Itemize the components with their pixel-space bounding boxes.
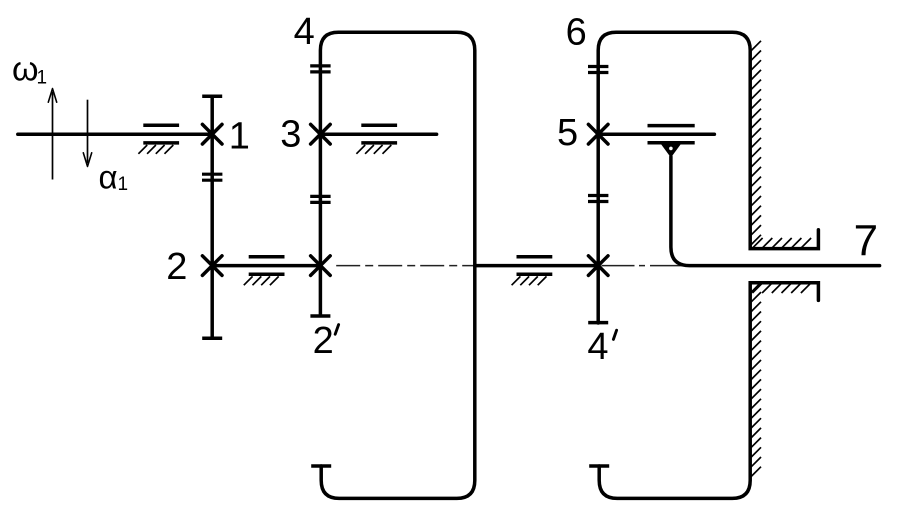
svg-text:7: 7 [854, 216, 878, 265]
coupling gear 6 to carrier 2 shaft [588, 67, 608, 73]
coupling below gear 5 [588, 196, 608, 202]
centerline between 4' and link [602, 265, 687, 267]
label 2 [166, 246, 187, 288]
shaft carrier1 to gear 4' [475, 264, 598, 268]
wall hatching upper (fixed frame) [751, 41, 761, 245]
gear mesh 5 (gear 5) [588, 124, 608, 144]
label 1 [229, 116, 250, 158]
label 6 [566, 11, 587, 53]
shaft 1-2 vertical with end caps [202, 96, 222, 338]
svg-text:ω: ω [12, 51, 39, 89]
bearing on shaft 2-2' [244, 257, 285, 286]
label 5 [557, 112, 578, 154]
label 7 [854, 216, 878, 265]
svg-text:2: 2 [166, 246, 187, 288]
svg-text:1: 1 [229, 116, 250, 158]
shaft of gear 5 horizontal [598, 132, 714, 136]
bearing on input shaft [138, 125, 179, 154]
carrier frame 2 lower outline with wall flange lower [599, 283, 818, 499]
wall hatching lower (fixed frame) [751, 282, 761, 477]
svg-text:4: 4 [587, 326, 608, 368]
gear mesh 1 (gear 1) [202, 124, 222, 144]
link from gear-5 support to output shaft 7 [671, 157, 880, 266]
arrow down (alpha_1 direction) [83, 100, 91, 167]
input shaft (shaft of gear 1) [18, 132, 212, 136]
svg-text:1: 1 [118, 174, 129, 195]
svg-text:1: 1 [37, 67, 48, 88]
label 4' [587, 326, 616, 368]
label omega_1 (input angular velocity) [12, 51, 47, 89]
shaft of gear 3 horizontal [320, 132, 436, 136]
svg-text:α: α [99, 159, 118, 196]
coupling on shaft 1-2 [202, 174, 222, 180]
label 4 [294, 11, 315, 53]
label 2' [313, 320, 339, 362]
coupling gear 4 to carrier 1 shaft [310, 66, 330, 72]
lower flange hatching [752, 283, 811, 293]
label alpha_1 (angular acceleration) [99, 159, 129, 196]
arrow up (omega_1 direction) [48, 89, 56, 180]
coupling below gear 3 [310, 196, 330, 202]
bearing on shaft 3 [356, 125, 397, 154]
upper flange hatching [752, 238, 811, 248]
bearing on carrier output shaft [512, 257, 553, 286]
carrier 1 bottom stub cap [311, 464, 331, 468]
label 3 [280, 114, 301, 156]
carrier frame 1 (planet carrier, gear 4 ring) [320, 32, 474, 498]
svg-text:4: 4 [294, 11, 315, 53]
support on shaft 5 (pivot bearing on link) [648, 126, 695, 158]
gear mesh 2' (gear 2 prime) [311, 256, 331, 276]
gear mesh 3 (gear 3) [311, 124, 331, 144]
shaft 5-4' lower end cap [588, 321, 608, 325]
carrier 2 bottom stub cap [589, 464, 609, 468]
centerline between 2' and carrier 1 [336, 265, 475, 267]
carrier frame 2 upper outline with wall flange upper [598, 32, 818, 323]
gear mesh 4' (gear 4 prime) [588, 256, 608, 276]
svg-text:5: 5 [557, 112, 578, 154]
shaft 2-2' horizontal [212, 264, 320, 268]
gear mesh 2 (gear 2) [202, 256, 222, 276]
shaft 3-2' lower end cap [310, 314, 330, 318]
svg-text:2: 2 [313, 320, 334, 362]
svg-text:3: 3 [280, 114, 301, 156]
svg-text:6: 6 [566, 11, 587, 53]
